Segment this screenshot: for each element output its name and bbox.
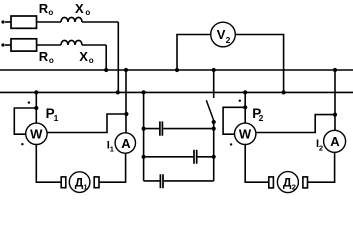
svg-text:X: X	[75, 1, 84, 16]
wattmeter P1 circle	[26, 123, 47, 144]
wire P1 voltage loop	[14, 108, 36, 134]
node A1 feed on bus1	[124, 68, 128, 72]
node P2 feed on bus2	[243, 90, 247, 94]
capacitor C1 plates	[160, 121, 163, 135]
device D2 right terminal box	[303, 177, 308, 188]
wire X2 to corner	[82, 44, 106, 46]
resistor Ro (branch 2)	[11, 39, 37, 51]
node branch2/bus1	[104, 68, 108, 72]
wire capacitor right rail	[213, 122, 215, 181]
wire X1 to corner	[82, 21, 118, 23]
wire capacitor rung 3 (bottom)	[144, 180, 214, 182]
wire terminal to R2	[5, 44, 11, 46]
wire W2 right jog to A2	[256, 115, 335, 133]
svg-text:1: 1	[54, 113, 59, 123]
wire P2 voltage loop	[223, 107, 245, 134]
wire R to X branch 1	[37, 21, 62, 23]
node V2 right on bus2	[282, 90, 286, 94]
svg-text:W: W	[30, 126, 43, 141]
node switch bottom contact	[212, 120, 216, 124]
polarity dot P2 top	[239, 100, 241, 102]
wire W1 bottom to D1	[36, 145, 61, 183]
ammeter A2 circle	[324, 130, 346, 152]
svg-text:X: X	[79, 49, 88, 64]
capacitor C2 plates	[194, 150, 197, 164]
wire W2 bottom to D2	[245, 145, 269, 183]
wire A1 bottom to D1	[99, 153, 125, 182]
node A2 feed on bus1	[333, 68, 337, 72]
svg-text:2: 2	[259, 113, 264, 123]
wire V2 right leg	[235, 35, 283, 93]
node P1 voltage tap	[34, 106, 38, 110]
bus line 2 (net L2)	[0, 91, 353, 93]
capacitor C3 plates	[160, 174, 163, 188]
resistor Ro (branch 1)	[11, 16, 37, 28]
svg-text:1: 1	[110, 144, 114, 153]
wire bus2 down to W1	[35, 92, 37, 123]
svg-text:2: 2	[292, 182, 296, 191]
terminal dot branch 2	[1, 43, 4, 46]
wattmeter P2 circle	[235, 123, 256, 144]
svg-text:Д: Д	[283, 176, 292, 190]
wire terminal to R1	[5, 21, 11, 23]
wire bus1 down to A2	[334, 70, 336, 130]
wire W1 right jog to A1	[47, 114, 126, 133]
svg-text:o: o	[85, 8, 90, 17]
ammeter A1 circle	[115, 133, 135, 153]
node P2 voltage tap	[243, 105, 247, 109]
svg-text:V: V	[217, 27, 226, 42]
polarity dot P2 bottom	[230, 143, 232, 145]
node P1 feed on bus2	[34, 90, 38, 94]
svg-text:o: o	[89, 56, 94, 65]
node W2 jog / A2	[333, 113, 337, 117]
wire A2 bottom to D2	[308, 152, 335, 182]
switch blade S	[206, 100, 214, 121]
wire bus1 down to A1	[125, 70, 127, 133]
svg-text:A: A	[330, 134, 340, 149]
node capacitor rail on bus2	[142, 90, 146, 94]
node W1 jog / A1	[124, 112, 128, 116]
svg-text:o: o	[48, 8, 53, 17]
svg-text:W: W	[239, 126, 252, 141]
device D2 left terminal box	[269, 177, 274, 188]
polarity dot P1 top	[28, 101, 30, 103]
svg-text:1: 1	[83, 182, 87, 191]
inductor Xo (branch 2)	[61, 40, 82, 45]
wire capacitor left rail	[143, 92, 145, 180]
node V2 left on bus1	[175, 68, 179, 72]
wire branch1 vertical down to bus2	[117, 22, 119, 92]
wire R to X branch 2	[37, 44, 61, 46]
voltmeter V2 circle	[211, 22, 236, 47]
svg-text:o: o	[49, 56, 54, 65]
node rung2 left	[142, 155, 146, 159]
device D1 circle	[69, 172, 90, 193]
device D2 circle	[277, 172, 298, 193]
wire switch upper stub	[213, 70, 215, 98]
device D1 right terminal box	[94, 177, 99, 188]
svg-text:2: 2	[226, 35, 231, 45]
wire V2 left leg	[177, 35, 211, 71]
wire bus2 down to W2	[244, 92, 246, 123]
svg-text:2: 2	[319, 143, 323, 152]
node rung1 left	[142, 127, 146, 131]
inductor Xo (branch 1)	[61, 17, 82, 22]
wire capacitor rung 2	[144, 156, 214, 158]
svg-text:R: R	[39, 49, 49, 64]
svg-text:A: A	[121, 136, 131, 151]
device D1 left terminal box	[61, 177, 66, 188]
svg-text:R: R	[39, 1, 49, 16]
wire capacitor rung 1	[144, 128, 214, 130]
node branch1/bus2	[116, 90, 120, 94]
terminal dot branch 1	[1, 20, 4, 23]
node switch feed on bus1	[212, 68, 216, 72]
wire branch2 vertical down to bus1	[105, 45, 107, 70]
polarity dot P1 bottom	[21, 143, 23, 145]
bus line 1 (net L1)	[0, 69, 353, 71]
node rung1 right	[212, 127, 216, 131]
node rung2 right	[212, 155, 216, 159]
